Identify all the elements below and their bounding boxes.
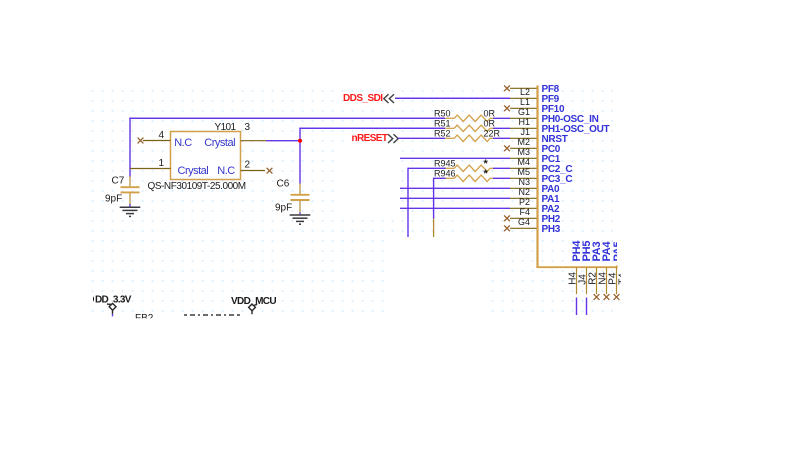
svg-text:4: 4 [159, 130, 165, 141]
svg-text:M3: M3 [517, 147, 530, 157]
connector bottom pin J4 PH5 [577, 241, 593, 295]
wire stub below pin J4 [586, 298, 588, 316]
wire stub C7 to ground [129, 204, 131, 207]
wire R52 right lead to pin [493, 137, 510, 139]
wire to pin F4 [400, 207, 510, 209]
svg-text:N.C: N.C [217, 165, 235, 177]
connector pin N3 PC3_C [510, 174, 572, 187]
connector bottom pin H4 PH4 [567, 240, 583, 295]
connector pin M5 PC2_C [510, 164, 572, 177]
svg-text:R50: R50 [434, 109, 451, 119]
wire to pin N2 [400, 187, 510, 189]
svg-text:2: 2 [245, 160, 251, 171]
svg-text:Crystal: Crystal [178, 165, 209, 177]
connector pin M2 NRST [510, 134, 568, 147]
svg-text:R52: R52 [434, 129, 451, 139]
svg-text:M2: M2 [517, 137, 530, 147]
connector bottom edge [537, 266, 618, 268]
connector bottom pin R2 PA3 [587, 241, 603, 299]
wire R945 left branch vertical [408, 168, 445, 237]
wire R50 right lead to pin [493, 117, 510, 119]
svg-text:R945: R945 [434, 159, 456, 169]
connector body line [536, 86, 538, 268]
capacitor C6 [291, 184, 310, 213]
svg-text:9pF: 9pF [275, 203, 292, 214]
svg-text:PA4: PA4 [601, 240, 613, 261]
connector pin H1 PH0-OSC_IN [510, 114, 599, 127]
connector pin L1 PF9 [510, 94, 560, 107]
connector pin P2 PA1 [510, 194, 560, 207]
wire net OSC_OUT: corner at x=300 down to C6 + horizontal to R51 [299, 128, 445, 184]
ground (C6) [290, 215, 311, 224]
svg-text:0R: 0R [484, 119, 496, 129]
connector pin J1 PH1-OSC_OUT [510, 124, 610, 137]
connector bottom pin N4 PA4 [597, 240, 613, 299]
connector pin M3 PC0 [504, 144, 561, 157]
wire R52 left lead [398, 137, 445, 139]
svg-text:P2: P2 [519, 197, 530, 207]
connector pin L2 PF8 [504, 84, 560, 97]
svg-text:*: * [484, 168, 489, 180]
svg-text:G4: G4 [518, 217, 530, 227]
svg-text:L1: L1 [520, 97, 530, 107]
svg-text:C6: C6 [277, 179, 290, 190]
connector pin N2 PA0 [510, 184, 560, 197]
wire to pin L1 [395, 97, 510, 99]
wire R945 right lead to pin [493, 167, 510, 169]
svg-text:M4: M4 [517, 157, 530, 167]
wire R945 left lead [444, 167, 446, 169]
wire R946 left lead [444, 177, 446, 179]
svg-text:F4: F4 [519, 207, 530, 217]
wire below VDD_3.3V [112, 314, 114, 316]
svg-text:N.C: N.C [174, 137, 192, 149]
DDS_SDI chevrons [384, 94, 394, 103]
wire stub below pin H4 [576, 298, 578, 316]
svg-text:N2: N2 [518, 187, 530, 197]
svg-text:J1: J1 [520, 127, 530, 137]
capacitor C7 [121, 177, 140, 205]
resistor R946 [445, 175, 493, 181]
ground (C7) [120, 207, 141, 216]
wire to pin P2 [400, 197, 510, 199]
svg-text:G1: G1 [518, 107, 530, 117]
junction dot [298, 139, 302, 143]
svg-text:N3: N3 [518, 177, 530, 187]
connector pin G4 PH2 [504, 214, 561, 227]
svg-text:H1: H1 [518, 117, 530, 127]
svg-text:L2: L2 [520, 87, 530, 97]
wire crystal pin3 to junction [266, 140, 300, 142]
Y101 pin 2 no-connect X [267, 168, 273, 174]
svg-text:DDS_SDI: DDS_SDI [343, 93, 383, 104]
svg-text:R51: R51 [434, 119, 451, 129]
resistor R50 [445, 115, 493, 121]
wire to pin M4 [400, 157, 510, 159]
Y101 pin 4 no-connect X [138, 138, 144, 144]
resistor R52 [445, 135, 493, 141]
svg-text:22R: 22R [484, 129, 501, 139]
svg-text:Crystal: Crystal [204, 137, 235, 149]
connector bottom edge right corner nub [616, 266, 618, 268]
wire stub C6 to ground [299, 213, 301, 215]
resistor R945 [445, 165, 493, 171]
connector bottom pin P4 PA5 [607, 241, 624, 299]
wire DDS_SDI to pin L1 [396, 97, 511, 99]
wire R946 right lead to pin [493, 177, 510, 179]
svg-text:1: 1 [159, 158, 165, 169]
resistor R51 [445, 125, 493, 131]
svg-text:QS-NF30109T-25.000M: QS-NF30109T-25.000M [148, 181, 246, 192]
svg-text:9pF: 9pF [105, 194, 122, 205]
svg-text:0R: 0R [484, 109, 496, 119]
svg-text:C7: C7 [112, 176, 125, 187]
wire R50 left lead [130, 117, 445, 119]
svg-text:PH3: PH3 [542, 224, 561, 235]
connector pin G1 PF10 [504, 104, 565, 117]
connector pin NC PH3 [504, 224, 561, 235]
svg-text:M5: M5 [517, 167, 530, 177]
wire R51 right lead to pin [493, 127, 510, 129]
crystal Y101 [130, 132, 266, 180]
connector pin M4 PC1 [510, 154, 561, 167]
FB2 value text (cut at bottom) [184, 314, 240, 316]
nRESET chevrons [388, 134, 398, 143]
connector pin F4 PA2 [510, 204, 560, 217]
wire R946 left branch vertical [434, 178, 445, 237]
wire net OSC_IN: left vertical + horizontal to R50 [129, 118, 445, 177]
svg-text:R946: R946 [434, 169, 456, 179]
svg-text:nRESET: nRESET [352, 133, 388, 144]
svg-text:Y101: Y101 [215, 122, 237, 133]
wire R51 left lead [300, 127, 445, 129]
svg-text:3: 3 [245, 122, 251, 133]
